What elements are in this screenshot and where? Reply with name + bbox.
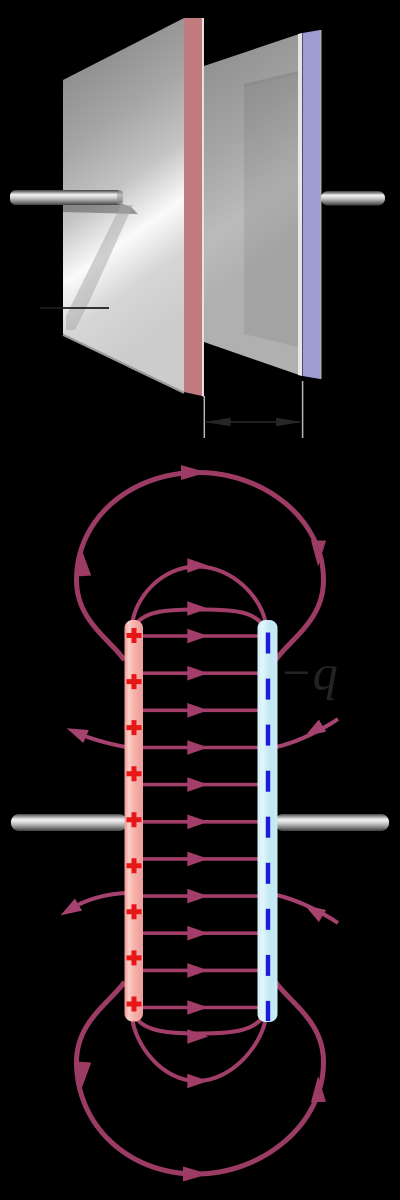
- label leader line: [40, 307, 109, 309]
- plus charges: [127, 628, 142, 1012]
- field line arrowheads: [187, 629, 208, 1015]
- side fringe lower-left: [79, 893, 126, 905]
- left rod: [10, 190, 123, 205]
- recessed inner panel: [244, 71, 298, 347]
- field line 1: [141, 634, 258, 638]
- bright rim near purple edge: [298, 33, 302, 376]
- dash 1: [266, 633, 270, 654]
- side fringe upper-left: [79, 719, 339, 923]
- right plate purple edge: [303, 30, 322, 379]
- dimension extension line left: [203, 396, 205, 438]
- dash 9: [266, 1001, 270, 1021]
- plus 1: [127, 628, 142, 643]
- side fringe upper-right: [277, 719, 339, 747]
- arc arrowheads: [187, 558, 208, 1088]
- big top loop A: [77, 473, 324, 1175]
- plus 5: [127, 812, 142, 827]
- faint second reflection: [63, 282, 70, 322]
- dash 6: [266, 863, 270, 884]
- field line 4: [141, 746, 258, 750]
- dash 2: [266, 679, 270, 700]
- dash 3: [266, 725, 270, 746]
- bottom fringe arc F (middle): [132, 1017, 266, 1081]
- bottom fringe arc E (inner): [136, 1018, 262, 1034]
- field line 9: [141, 931, 258, 935]
- field line 11: [141, 1006, 258, 1010]
- dimension extension line right: [302, 381, 304, 438]
- plus 8: [127, 950, 142, 965]
- left rod segment: [11, 814, 127, 831]
- right plate face: [204, 33, 302, 376]
- rod shadow on left plate: [63, 204, 138, 214]
- plus 9: [127, 997, 142, 1012]
- plus 4: [127, 766, 142, 781]
- minus charges (vertical dashes): [266, 633, 270, 1022]
- right rod segment: [275, 814, 389, 831]
- dash 7: [266, 909, 270, 930]
- plus 3: [127, 720, 142, 735]
- side fringe lower-right: [277, 895, 339, 923]
- top fringe arc B (middle): [132, 567, 266, 1082]
- field line 8: [141, 894, 258, 898]
- right capacitor plate (negative): [258, 620, 278, 1022]
- field line 7: [141, 857, 258, 861]
- dash 5: [266, 817, 270, 838]
- field line 10: [141, 969, 258, 973]
- dimension double arrow d: [205, 418, 303, 426]
- field line 2: [141, 671, 258, 675]
- plus 7: [127, 904, 142, 919]
- field line 3: [141, 708, 258, 712]
- field line 6: [141, 820, 258, 824]
- svg-text:−q: −q: [279, 645, 338, 701]
- left capacitor plate (positive): [125, 620, 144, 1022]
- left plate face: [63, 18, 184, 393]
- left plate pink edge: [184, 18, 204, 397]
- plus 6: [127, 858, 142, 873]
- field line 5: [141, 783, 258, 787]
- dash 8: [266, 955, 270, 976]
- bottom rim of left plate: [63, 335, 184, 393]
- dash 4: [266, 771, 270, 792]
- plus 2: [127, 674, 142, 689]
- top fringe arc C (inner): [136, 610, 262, 625]
- right rod: [321, 191, 385, 206]
- big bottom loop G: [77, 982, 324, 1174]
- diagonal reflection band: [66, 205, 133, 330]
